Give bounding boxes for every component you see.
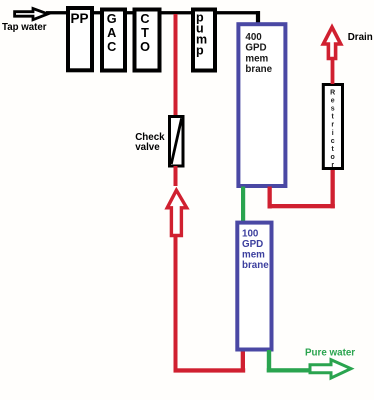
membrane 100 GPD — [237, 223, 271, 350]
svg-text:p: p — [196, 44, 204, 58]
pure water outlet arrow (green) — [310, 360, 351, 378]
wire 400 GPD permeate to 100 GPD membrane (green) — [241, 187, 245, 223]
svg-text:e: e — [331, 97, 335, 104]
filter CTO — [135, 10, 160, 71]
svg-text:Tap water: Tap water — [2, 22, 47, 33]
svg-text:Pure water: Pure water — [305, 348, 355, 359]
svg-text:s: s — [331, 106, 335, 113]
drain arrow up (red) — [323, 27, 340, 58]
svg-text:c: c — [331, 138, 335, 145]
wire 400 GPD concentrate down (red) — [268, 187, 272, 209]
svg-text:400: 400 — [245, 32, 262, 43]
wire check valve to flow arrow (red) — [174, 166, 178, 186]
svg-text:mem: mem — [242, 250, 265, 261]
svg-text:100: 100 — [242, 229, 259, 240]
svg-text:C: C — [107, 40, 116, 54]
wire recirculation from feed line down to check valve (red) — [174, 14, 178, 116]
label Check valve — [135, 132, 165, 153]
wire bottom horizontal run (red) — [174, 368, 246, 372]
svg-text:valve: valve — [135, 142, 160, 153]
wire flow arrow down to bottom run (red) — [174, 237, 178, 371]
svg-text:G: G — [107, 12, 117, 26]
svg-text:R: R — [330, 89, 335, 96]
wire drop to 400 GPD membrane (black) — [256, 11, 260, 24]
svg-text:GPD: GPD — [242, 239, 263, 250]
membrane 400 GPD — [238, 24, 285, 186]
filter PP — [68, 8, 92, 70]
wire up into 100 GPD membrane (red) — [241, 350, 245, 371]
wire main feed line (black) — [46, 11, 260, 14]
filter GAC — [102, 10, 125, 71]
svg-text:i: i — [332, 130, 334, 137]
svg-text:brane: brane — [242, 260, 269, 271]
svg-text:T: T — [141, 26, 149, 40]
wire permeate horizontal to pure water arrow (green) — [267, 368, 311, 372]
svg-text:A: A — [107, 26, 116, 40]
tap water inlet arrow — [15, 9, 48, 20]
check valve — [170, 117, 184, 167]
svg-text:r: r — [331, 122, 334, 129]
svg-text:C: C — [140, 12, 149, 26]
svg-text:PP: PP — [71, 11, 89, 26]
svg-text:O: O — [140, 40, 150, 54]
flow arrow up (red, recirculation) — [167, 190, 187, 235]
wire concentrate horizontal to restrictor (red) — [268, 204, 335, 208]
restrictor — [323, 85, 342, 169]
wire up to restrictor bottom (red) — [331, 169, 335, 209]
svg-text:o: o — [331, 154, 335, 161]
pump — [193, 10, 215, 71]
wire 100 GPD permeate down (green) — [267, 350, 271, 373]
svg-text:Drain: Drain — [348, 32, 373, 43]
svg-text:brane: brane — [245, 64, 272, 75]
svg-text:r: r — [331, 162, 334, 169]
svg-text:GPD: GPD — [245, 43, 266, 54]
svg-text:mem: mem — [245, 53, 268, 64]
wire restrictor to drain arrow (red) — [331, 58, 335, 84]
